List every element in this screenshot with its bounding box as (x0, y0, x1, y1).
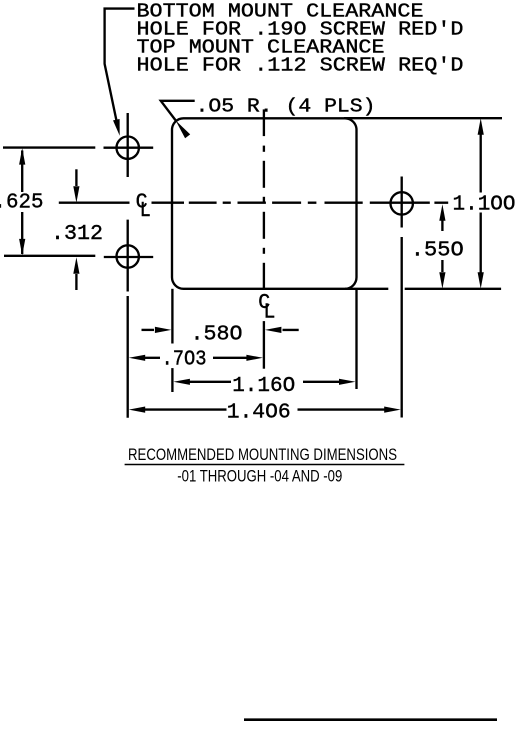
leader to corner radius (161, 101, 195, 139)
svg-text:RECOMMENDED MOUNTING DIMENSION: RECOMMENDED MOUNTING DIMENSIONS (128, 445, 397, 464)
extension line cutout bottom right B (405, 288, 501, 290)
hole top-left (117, 137, 139, 159)
extension line top hole left (3, 146, 95, 148)
svg-text:L: L (263, 301, 275, 325)
note line 1 (137, 0, 424, 22)
svg-text:.58O: .58O (191, 322, 243, 346)
extension line bottom hole left (4, 255, 95, 257)
caption line 1 (128, 445, 397, 464)
left holes vertical centerline upper (127, 113, 129, 177)
dimension .312 (51, 169, 103, 290)
caption underline (125, 464, 405, 466)
svg-text:L: L (140, 199, 151, 223)
extension line cutout bottom right A (345, 288, 388, 290)
note line 4 (137, 54, 464, 76)
dimension 1.160 (173, 374, 355, 398)
svg-text:1.4O6: 1.4O6 (227, 401, 291, 425)
dimension .625 (0, 148, 44, 255)
extension line cutout top right (344, 117, 502, 119)
left holes centerline extension down (127, 296, 129, 418)
hole right (391, 192, 413, 214)
extension line cutout right edge down (355, 290, 357, 389)
note line 3 (137, 36, 385, 58)
dimension 1.100 (453, 118, 516, 288)
leader to top-left hole (105, 9, 135, 136)
hole right vertical centerline (401, 177, 403, 228)
svg-text:.7O3: .7O3 (162, 348, 207, 372)
vertical centerline extension below symbol (263, 321, 265, 369)
centerline symbol bottom (258, 291, 275, 324)
vertical centerline of cutout (263, 109, 265, 289)
dimension .580 (142, 322, 299, 346)
svg-text:.312: .312 (51, 222, 103, 246)
rounded rectangle cutout (172, 118, 357, 288)
svg-text:.625: .625 (0, 191, 44, 215)
hole right centerline extension down (401, 237, 403, 418)
bottom border line (244, 718, 497, 721)
svg-text:HOLE FOR .112 SCREW REQ'D: HOLE FOR .112 SCREW REQ'D (137, 54, 464, 76)
extension line cutout left edge down (171, 289, 173, 392)
svg-text:.O5 R. (4 PLS): .O5 R. (4 PLS) (196, 96, 376, 118)
hole bottom-left horizontal centerline (104, 256, 153, 258)
svg-text:.55O: .55O (411, 239, 464, 263)
extension line right hole (434, 202, 448, 204)
left holes vertical centerline lower (127, 220, 129, 292)
horizontal centerline (59, 202, 430, 204)
note line 2 (137, 18, 464, 40)
svg-text:1.1OO: 1.1OO (453, 193, 516, 217)
centerline symbol left (136, 191, 151, 223)
dimension .703 (129, 348, 263, 372)
hole bottom-left (117, 245, 139, 267)
dimension .550 (411, 204, 464, 288)
dimension 1.406 (129, 401, 401, 425)
svg-text:-01 THROUGH -04 AND -09: -01 THROUGH -04 AND -09 (177, 467, 342, 486)
radius note (196, 96, 376, 118)
caption line 2 (177, 467, 342, 486)
svg-text:1.16O: 1.16O (232, 374, 295, 398)
hole top-left horizontal centerline (104, 147, 154, 149)
